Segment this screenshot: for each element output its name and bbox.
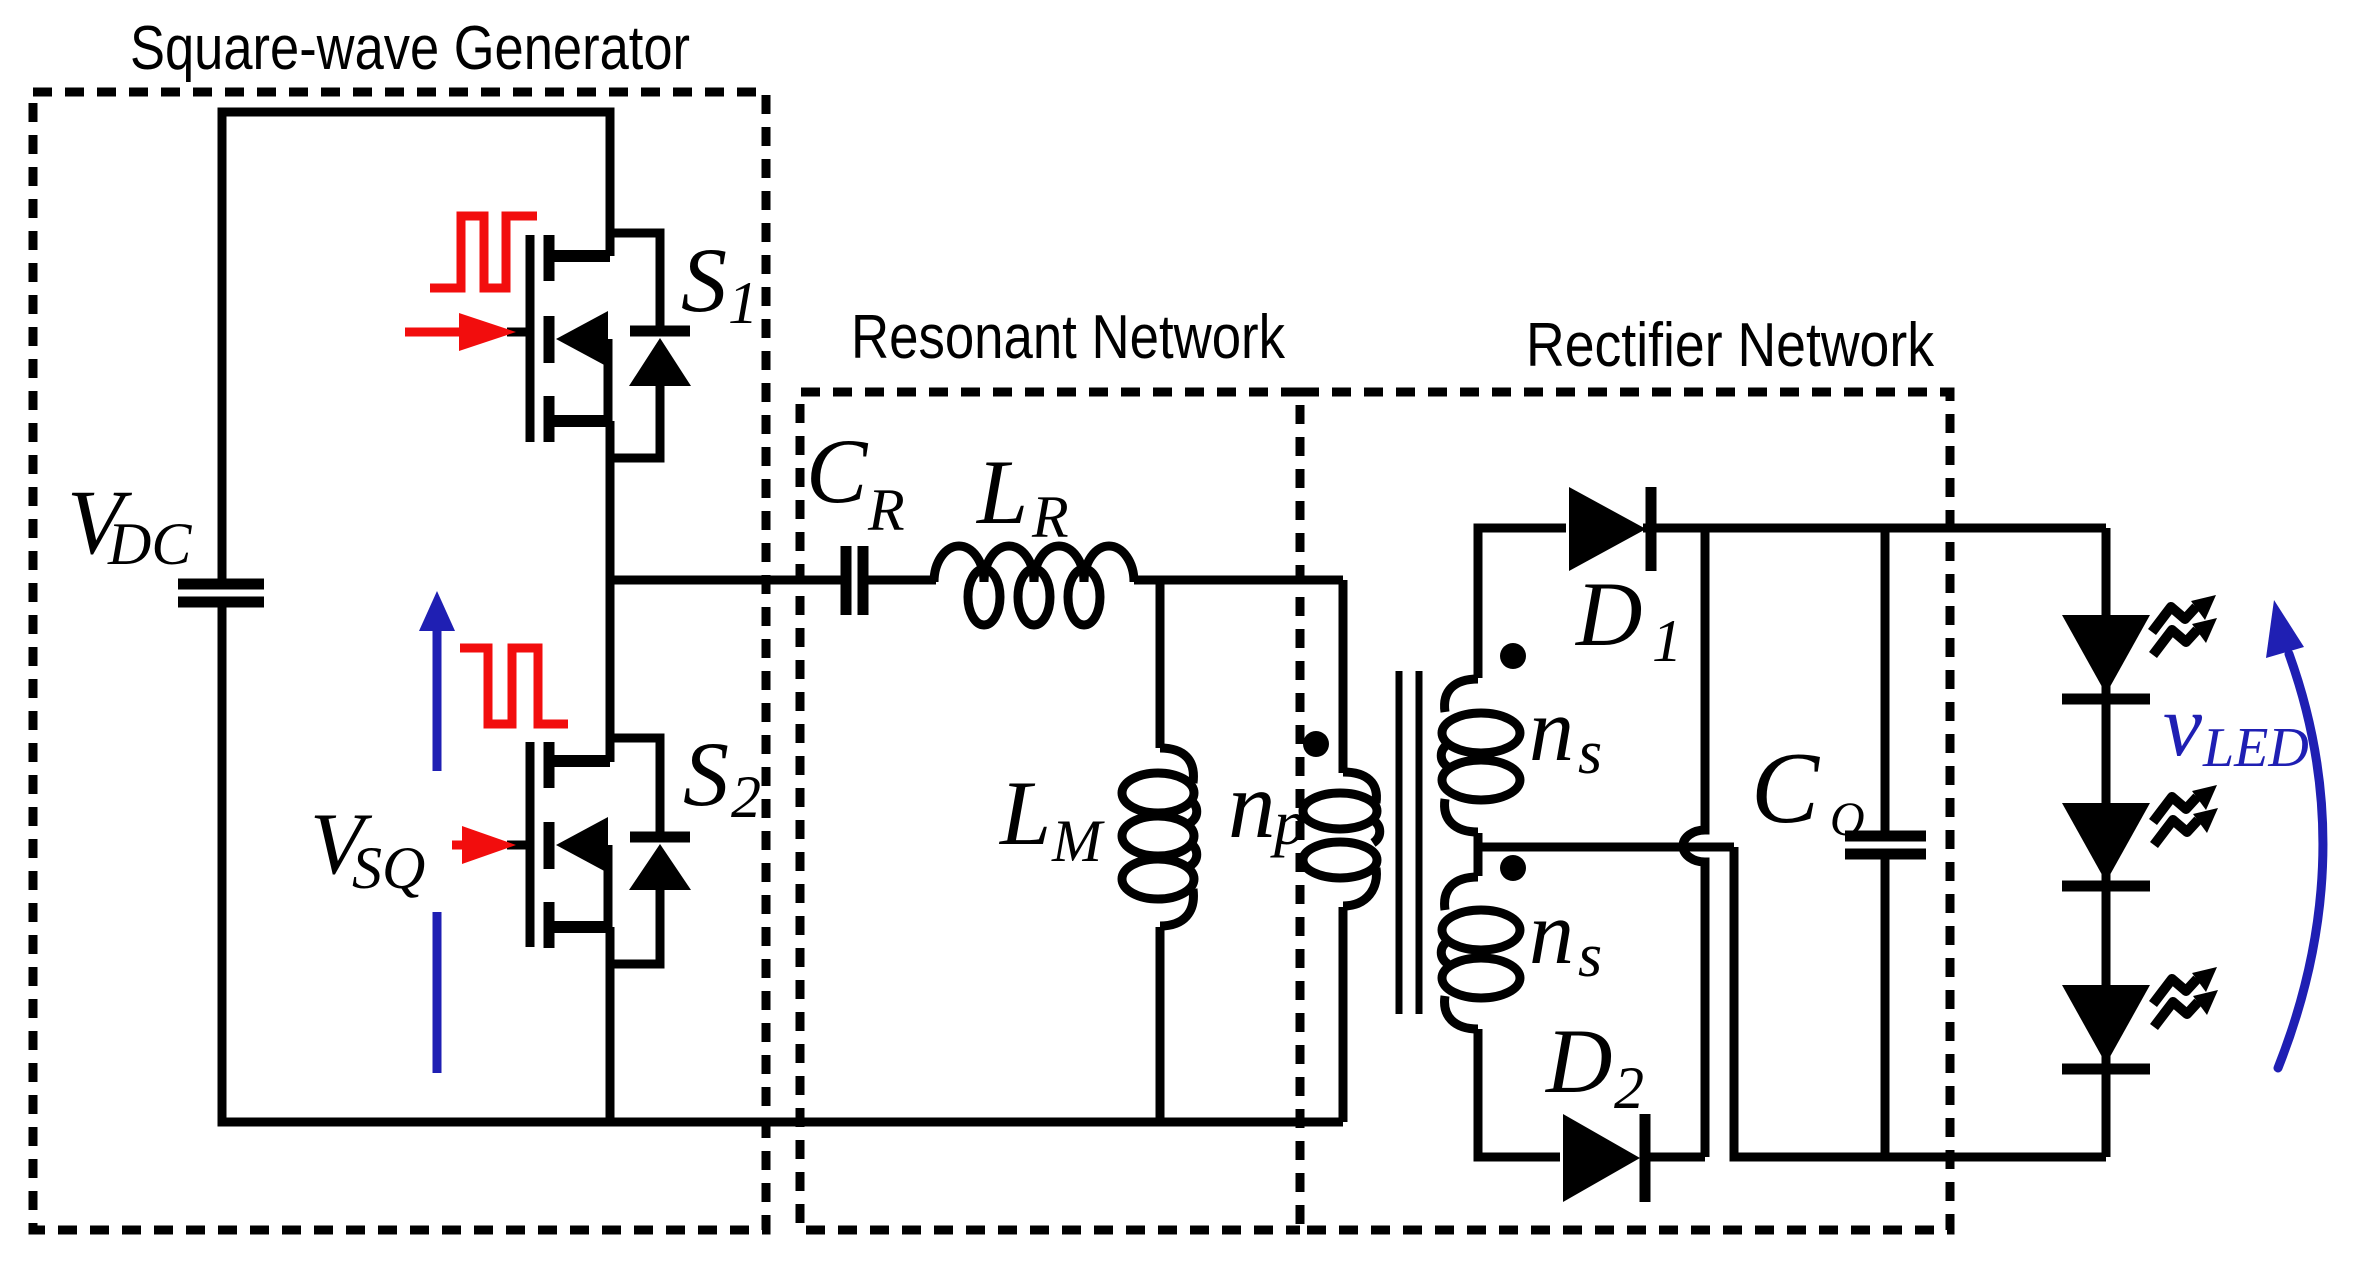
transistor S1 — [507, 235, 610, 442]
label ns bottom — [1529, 884, 1602, 990]
svg-text:D: D — [1574, 563, 1642, 665]
wire LR to np — [1134, 576, 1343, 585]
LED 3 light rays — [2153, 967, 2218, 1027]
capacitor CO — [1845, 836, 1926, 854]
svg-text:M: M — [1051, 808, 1105, 874]
wire np bottom — [1339, 907, 1348, 1122]
gate drive S2 red arrow — [452, 826, 516, 864]
wire top output rail — [1643, 524, 2106, 533]
label D2 — [1544, 1010, 1644, 1121]
diode S1 body diode — [610, 233, 691, 458]
label LM — [998, 762, 1105, 874]
LED 1 light rays — [2152, 595, 2217, 655]
wire S2 source to bottom rail — [606, 927, 615, 1122]
polarity dot np — [1303, 731, 1329, 757]
dashed box Square-wave Generator — [33, 92, 766, 1230]
label CR — [806, 420, 905, 543]
arrow vLED blue curved — [2266, 600, 2323, 1068]
wire ns bottom to D2 — [1478, 1029, 1560, 1157]
transformer secondary winding ns top — [1441, 679, 1520, 832]
svg-text:n: n — [1529, 681, 1574, 780]
svg-text:R: R — [867, 477, 905, 543]
svg-text:C: C — [806, 420, 869, 522]
label vLED — [2163, 678, 2309, 779]
wire CO bottom — [1881, 854, 1890, 1157]
svg-text:n: n — [1228, 752, 1276, 858]
svg-text:LED: LED — [2202, 717, 2309, 779]
LED 2 — [2062, 803, 2150, 886]
wire CR to LR — [863, 576, 936, 585]
diode S2 body diode — [610, 738, 691, 964]
label VDC — [67, 471, 192, 577]
svg-text:s: s — [1578, 922, 1602, 990]
diode D1 — [1569, 487, 1651, 571]
wire top rail VDC to S1 drain — [222, 112, 610, 584]
wire CO top — [1881, 528, 1890, 837]
svg-text:Square-wave Generator: Square-wave Generator — [130, 14, 690, 83]
arrow VSQ blue — [419, 591, 455, 1073]
svg-text:Resonant Network: Resonant Network — [851, 303, 1286, 372]
capacitor CR — [846, 546, 863, 615]
label S1 — [681, 229, 758, 336]
svg-text:L: L — [998, 762, 1051, 864]
svg-text:v: v — [2163, 678, 2203, 775]
svg-text:L: L — [975, 441, 1028, 543]
label VSQ — [310, 796, 425, 901]
polarity dot ns bottom — [1500, 855, 1526, 881]
svg-text:1: 1 — [1652, 608, 1682, 674]
svg-text:S: S — [681, 229, 727, 331]
capacitor VDC — [178, 584, 264, 602]
label CO — [1751, 732, 1865, 846]
svg-text:s: s — [1578, 719, 1602, 787]
label S2 — [683, 723, 761, 830]
svg-text:p: p — [1270, 787, 1306, 858]
dashed box Rectifier Network — [1300, 392, 1950, 1230]
svg-text:SQ: SQ — [352, 835, 425, 901]
svg-text:1: 1 — [728, 270, 758, 336]
wire S1 source to S2 drain switch node — [606, 421, 615, 762]
wire np top — [1339, 580, 1348, 773]
LED 1 — [2062, 615, 2150, 699]
transistor S2 — [507, 742, 610, 948]
svg-text:2: 2 — [731, 764, 761, 830]
wire center tap — [1478, 833, 1734, 876]
label np — [1228, 752, 1306, 858]
svg-text:n: n — [1529, 884, 1574, 983]
label LR — [975, 441, 1069, 550]
svg-text:Rectifier Network: Rectifier Network — [1526, 311, 1935, 380]
wire D2 cathode to output — [1640, 1153, 1705, 1162]
svg-text:O: O — [1830, 793, 1865, 846]
gate drive S2 square wave — [460, 648, 568, 724]
transformer primary winding np — [1303, 772, 1380, 906]
svg-text:S: S — [683, 723, 729, 825]
dashed box Resonant Network — [800, 392, 1300, 1230]
svg-text:DC: DC — [107, 511, 192, 577]
svg-text:C: C — [1751, 732, 1820, 845]
label D1 — [1574, 563, 1682, 674]
label ns top — [1529, 681, 1602, 787]
svg-text:R: R — [1031, 484, 1069, 550]
svg-text:2: 2 — [1614, 1055, 1644, 1121]
gate drive S1 red arrow — [405, 313, 516, 351]
wire ns top to D1 — [1478, 528, 1566, 678]
inductor LR — [934, 546, 1134, 625]
wire center tap down and bottom output rail — [1734, 847, 2106, 1157]
transformer secondary winding ns bottom — [1441, 877, 1520, 1029]
wire rectifier output vertical with hop — [1683, 528, 1705, 1157]
wire switch node to CR — [610, 576, 841, 585]
inductor LM — [1122, 748, 1197, 926]
svg-text:D: D — [1544, 1010, 1612, 1112]
wire LM to bottom rail — [1156, 927, 1165, 1122]
wire LED string vertical — [2102, 528, 2111, 1157]
LED 3 — [2062, 985, 2150, 1069]
LED 2 light rays — [2153, 785, 2218, 845]
gate drive S1 square wave — [430, 216, 537, 288]
wire VDC to bottom rail and bottom rail — [222, 602, 1343, 1122]
transformer core — [1399, 671, 1419, 1014]
diode D2 — [1563, 1114, 1645, 1202]
polarity dot ns top — [1500, 643, 1526, 669]
wire LM branch — [1156, 580, 1165, 748]
